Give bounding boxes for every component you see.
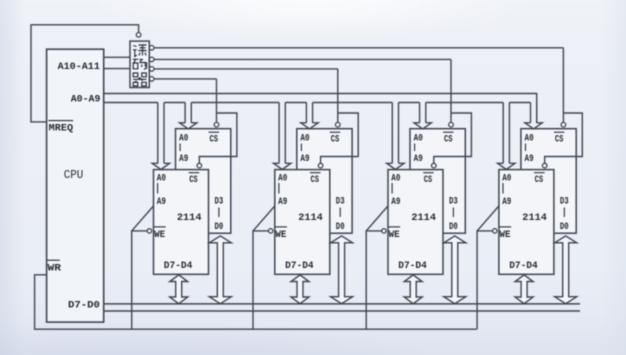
node: decoder output bubble 4	[149, 77, 154, 82]
wire: A0-A9 bus branch arrow into front chip U3A	[387, 103, 404, 170]
wire: decoder output 2 line	[154, 58, 451, 60]
wire: decoder output 2 drop to back chip CS of group 3	[450, 59, 452, 122]
svg-text:D7-D0: D7-D0	[68, 300, 100, 311]
svg-text:D0: D0	[336, 222, 345, 233]
wire: A0-A9 bus branch arrow into front chip U2A	[274, 103, 291, 170]
wire: A11 from CPU to decoder	[104, 68, 130, 70]
wire: bidirectional data arrow D3-D0 of U1B to data bus	[209, 236, 231, 304]
svg-text:D7-D4: D7-D4	[164, 261, 193, 272]
svg-text:WE: WE	[500, 230, 511, 241]
svg-text:A10-A11: A10-A11	[58, 62, 100, 73]
svg-text:2114: 2114	[411, 212, 436, 224]
svg-text:WE: WE	[154, 230, 165, 241]
svg-text:D0: D0	[560, 222, 569, 233]
wire: A0-A9 bus branch arrow into back chip U2B	[301, 103, 318, 129]
svg-text:WE: WE	[275, 230, 286, 241]
svg-text:A9: A9	[157, 197, 166, 208]
wire: bidirectional data arrow D7-D4 of U3A to data bus	[404, 275, 422, 304]
wire: bidirectional data arrow D7-D4 of U2A to data bus	[291, 275, 309, 304]
wire: WR riser to WE of group 2	[253, 231, 269, 329]
node: CS bubble of back chip U3B	[449, 122, 454, 127]
node: CS bubble of front chip U2A	[318, 163, 323, 168]
svg-text:D3: D3	[215, 197, 224, 208]
svg-text:CPU: CPU	[64, 168, 84, 182]
cpu U0	[47, 49, 104, 322]
memory chip U1A 2114 (front, D7-D4)	[154, 170, 209, 275]
node: CS bubble of back chip U4B	[561, 122, 566, 127]
svg-text:CS: CS	[210, 134, 219, 145]
svg-text:A9: A9	[502, 197, 511, 208]
label: D3-D0 pins of back chip U4B	[560, 197, 569, 233]
wire: A0-A9 bus branch arrow into back chip U1B	[180, 103, 197, 129]
svg-text:A9: A9	[278, 197, 287, 208]
svg-text:D0: D0	[215, 222, 224, 233]
svg-text:A0-A9: A0-A9	[71, 94, 101, 105]
wire: decoder output 4 drop to back chip CS of group 1	[216, 79, 218, 122]
node: CS bubble of front chip U1A	[197, 163, 202, 168]
wire: A10 from CPU to decoder	[104, 56, 130, 58]
wire: CS jog from decoder drop to front chip CS of group 2	[321, 113, 359, 163]
wire: decoder output 3 line	[154, 68, 338, 70]
svg-text:A0: A0	[278, 173, 287, 184]
wire: A0-A9 bus branch arrow into front chip U4A	[498, 103, 515, 170]
svg-text:A9: A9	[414, 154, 423, 165]
svg-text:A0: A0	[300, 134, 309, 145]
wire: bidirectional data arrow D3-D0 of U2B to data bus	[331, 236, 353, 304]
node: CS bubble of front chip U3A	[432, 163, 437, 168]
memory chip U2A 2114 (front, D7-D4)	[275, 170, 330, 275]
memory chip U4A 2114 (front, D7-D4)	[499, 170, 554, 275]
wire: MREQ loop from CPU to decoder enable	[31, 25, 139, 122]
memory chip U1B 2114 (back, D3-D0)	[176, 129, 231, 234]
wire: decoder output 1 drop to back chip CS of group 4	[562, 48, 564, 123]
node: CS bubble of back chip U1B	[214, 122, 219, 127]
svg-text:D3: D3	[560, 197, 569, 208]
svg-text:A9: A9	[300, 154, 309, 165]
svg-text:2114: 2114	[522, 212, 547, 224]
node: WE bubble of group 2	[269, 229, 273, 233]
svg-text:A9: A9	[391, 197, 400, 208]
wire: WE diagonal to hidden back chip	[253, 205, 276, 231]
svg-text:CS: CS	[535, 175, 544, 186]
wire: A0-A9 bus branch arrow into back chip U3B	[414, 103, 431, 129]
decoder U5 (译码器)	[130, 41, 149, 87]
wire: CS jog from decoder drop to front chip CS of group 4	[545, 113, 583, 163]
node: decoder output bubble 3	[149, 67, 154, 72]
svg-text:A0: A0	[502, 173, 511, 184]
node: decoder output bubble 1	[149, 46, 154, 51]
svg-text:CS: CS	[424, 175, 433, 186]
wire: WE diagonal to hidden back chip	[366, 205, 389, 231]
node: decoder output bubble 2	[149, 57, 154, 62]
svg-text:D0: D0	[449, 222, 458, 233]
node: CS bubble of front chip U4A	[542, 163, 547, 168]
svg-text:CS: CS	[311, 175, 320, 186]
wire: bidirectional data arrow D3-D0 of U3B to data bus	[444, 236, 466, 304]
wire: decoder output 1 line	[154, 47, 563, 49]
node: WE bubble of group 3	[382, 229, 386, 233]
memory chip U3B 2114 (back, D3-D0)	[410, 129, 465, 234]
label: D3-D0 pins of back chip U2B	[336, 197, 345, 233]
svg-text:D7-D4: D7-D4	[509, 261, 538, 272]
svg-text:CS: CS	[189, 175, 198, 186]
svg-text:D7-D4: D7-D4	[285, 261, 314, 272]
wire: A0-A9 address bus (hollow double line)	[104, 94, 537, 123]
wire: bidirectional data arrow D3-D0 of U4B to data bus	[555, 236, 577, 304]
wire: WR riser to WE of group 1	[132, 231, 148, 329]
wire: A0-A9 bus branch arrow into front chip U1A	[152, 103, 169, 170]
wire: bidirectional data arrow D7-D4 of U4A to data bus	[515, 275, 533, 304]
wire: WR loop from CPU along bottom	[35, 275, 477, 329]
wire: decoder output 4 line	[154, 78, 217, 80]
memory chip U3A 2114 (front, D7-D4)	[388, 170, 443, 275]
svg-text:CS: CS	[444, 134, 453, 145]
memory chip U2B 2114 (back, D3-D0)	[297, 129, 352, 234]
label: D3-D0 pins of back chip U1B	[215, 197, 224, 233]
svg-text:A0: A0	[391, 173, 400, 184]
svg-text:WE: WE	[389, 230, 400, 241]
node: CS bubble of back chip U2B	[336, 122, 341, 127]
svg-text:CS: CS	[555, 134, 564, 145]
svg-text:MREQ: MREQ	[49, 123, 73, 134]
wire: A0-A9 bus branch arrow into back chip U4B	[525, 103, 542, 129]
node: WE bubble of group 1	[147, 229, 151, 233]
label: D3-D0 pins of back chip U3B	[449, 197, 458, 233]
svg-text:A0: A0	[157, 173, 166, 184]
wire: WE diagonal to hidden back chip	[477, 205, 500, 231]
wire: WE diagonal to hidden back chip	[132, 205, 155, 231]
node: decoder enable bubble	[136, 33, 141, 38]
svg-text:A0: A0	[414, 134, 423, 145]
svg-text:WR: WR	[48, 263, 62, 274]
wire: WR riser to WE of group 4	[477, 231, 493, 329]
wire: CS jog from decoder drop to front chip CS of group 3	[434, 113, 472, 163]
svg-text:A9: A9	[525, 154, 534, 165]
memory chip U4B 2114 (back, D3-D0)	[521, 129, 576, 234]
svg-text:D3: D3	[336, 197, 345, 208]
svg-text:D3: D3	[449, 197, 458, 208]
svg-text:CS: CS	[331, 134, 340, 145]
svg-text:2114: 2114	[298, 212, 323, 224]
wire: bidirectional data arrow D7-D4 of U1A to data bus	[170, 275, 188, 304]
svg-text:A9: A9	[179, 154, 188, 165]
svg-text:2114: 2114	[177, 212, 202, 224]
wire: CS jog from decoder drop to front chip CS of group 1	[199, 113, 237, 163]
svg-text:A0: A0	[179, 134, 188, 145]
wire: decoder output 3 drop to back chip CS of group 2	[337, 69, 339, 122]
wire: D7-D0 data bus (double line)	[104, 304, 580, 311]
node: WE bubble of group 4	[493, 229, 497, 233]
svg-text:A0: A0	[525, 134, 534, 145]
svg-text:D7-D4: D7-D4	[398, 261, 427, 272]
wire: WR riser to WE of group 3	[366, 231, 382, 329]
